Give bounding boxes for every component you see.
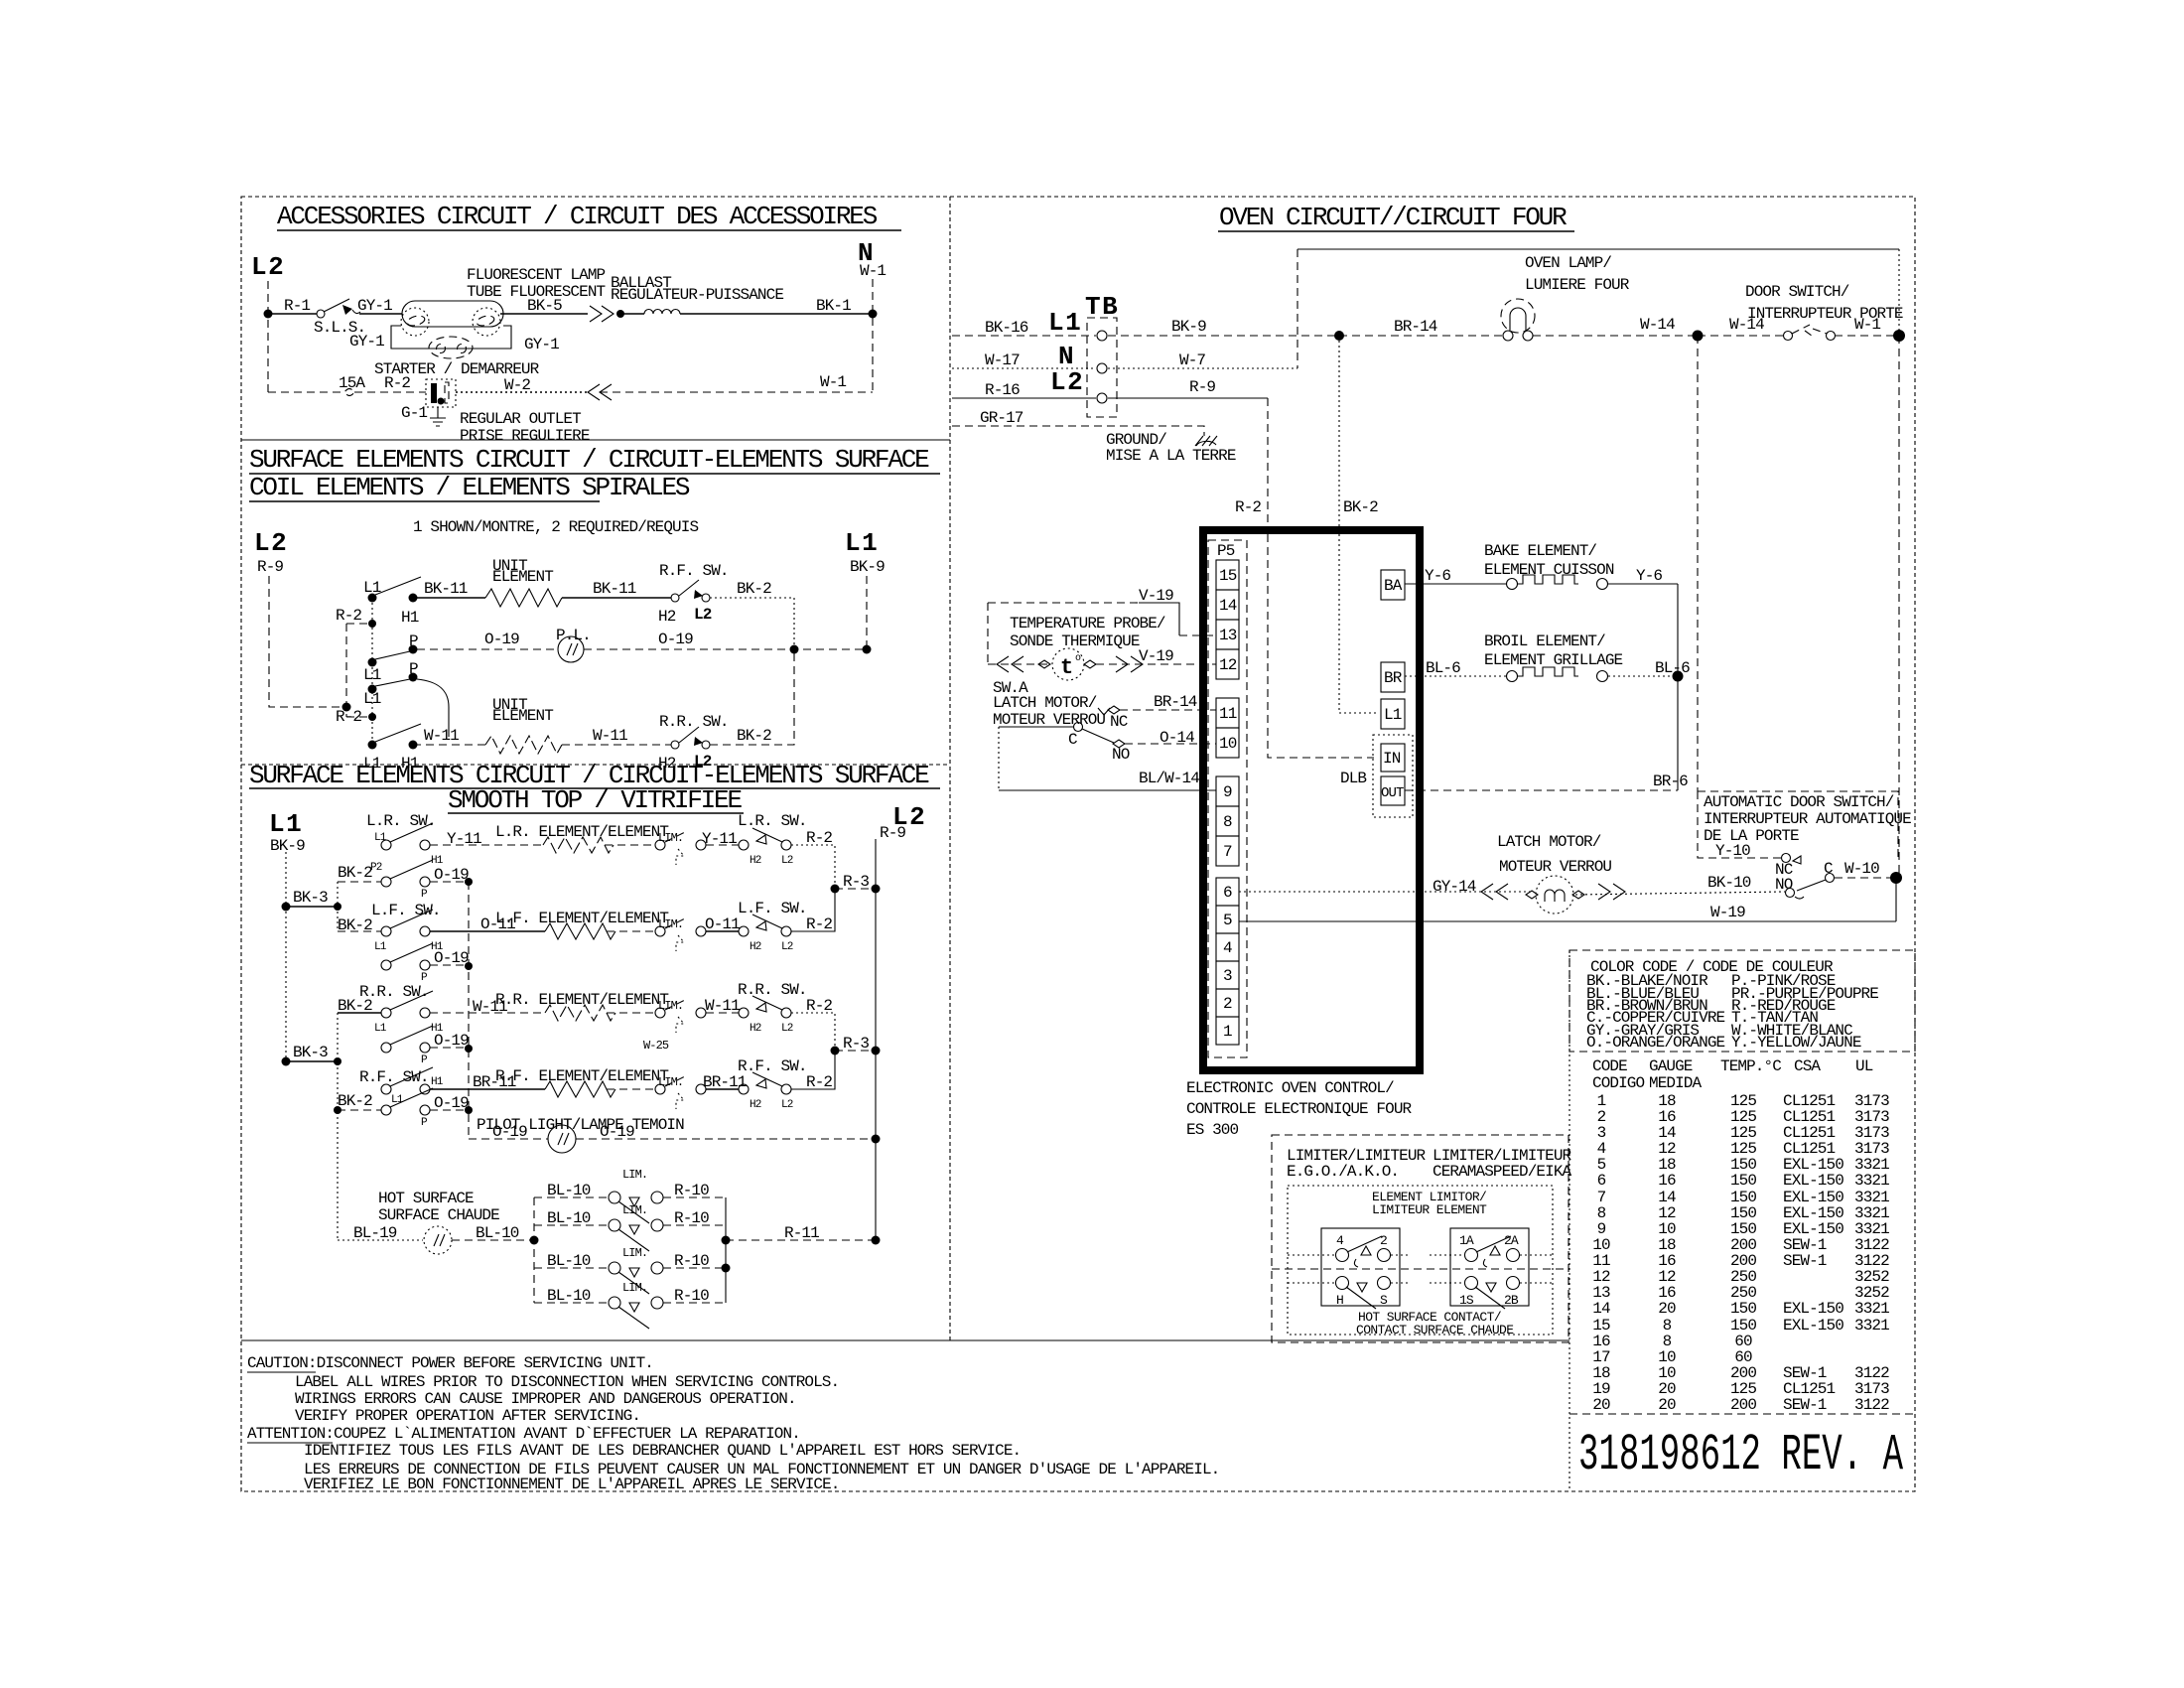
svg-text:R-2: R-2: [336, 607, 361, 625]
svg-text:UL: UL: [1855, 1057, 1873, 1075]
wire BK-3 upper: [286, 906, 338, 908]
svg-text:O-19: O-19: [492, 1123, 527, 1141]
svg-text:O-19: O-19: [434, 866, 469, 884]
svg-text:BK-2: BK-2: [737, 727, 771, 745]
wire O-19 left: [417, 648, 558, 650]
wire BK-9: [1108, 335, 1339, 337]
svg-text:LABEL ALL WIRES PRIOR TO DISCO: LABEL ALL WIRES PRIOR TO DISCONNECTION W…: [295, 1373, 839, 1391]
wire BK-2 top: [710, 598, 794, 649]
svg-text:CSA: CSA: [1794, 1057, 1821, 1075]
svg-text:O.-ORANGE/ORANGE: O.-ORANGE/ORANGE: [1586, 1034, 1725, 1052]
svg-text:BL-6: BL-6: [1426, 659, 1460, 677]
pin 9: [1216, 776, 1239, 806]
element limitor inner box: [1288, 1186, 1553, 1335]
svg-text:ATTENTION:COUPEZ L`ALIMENTATIO: ATTENTION:COUPEZ L`ALIMENTATION AVANT D`…: [247, 1425, 800, 1443]
switch P top: [368, 658, 377, 667]
limiter outer box: [1272, 1135, 1569, 1342]
wire BK-2 bottom: [710, 649, 794, 745]
svg-text:10: 10: [1219, 735, 1237, 753]
svg-text:CERAMASPEED/EIKA: CERAMASPEED/EIKA: [1433, 1163, 1572, 1181]
wire BK-2 bus upper: [337, 882, 339, 931]
svg-text:ELEMENT: ELEMENT: [492, 707, 553, 725]
relay BA: [1381, 570, 1405, 600]
svg-text:4: 4: [1223, 939, 1232, 957]
svg-text:14: 14: [1592, 1300, 1610, 1318]
svg-text:CONTACT SURFACE CHAUDE: CONTACT SURFACE CHAUDE: [1356, 1323, 1514, 1337]
svg-text:PRISE REGULIERE: PRISE REGULIERE: [460, 427, 590, 445]
svg-text:LIM.: LIM.: [622, 1281, 647, 1295]
wire R-2 riser: [1267, 398, 1269, 530]
wire P loop: [417, 679, 449, 737]
switch L1-H1 bottom: [368, 741, 377, 750]
wire O-19 bus: [468, 882, 470, 1139]
gauge table bottom border: [1570, 1413, 1915, 1415]
svg-text:R-3: R-3: [843, 873, 869, 891]
automatic door switch box: [1698, 791, 1898, 858]
contact NC: [1108, 706, 1120, 714]
svg-text:6: 6: [1597, 1172, 1606, 1190]
wire BK-5: [500, 313, 588, 315]
svg-text:R-10: R-10: [674, 1182, 709, 1199]
wire limiter row bottom: [1288, 1282, 1553, 1284]
divider between left column and oven circuit: [949, 197, 951, 1340]
svg-text:BK-2: BK-2: [338, 1092, 372, 1110]
svg-text:4: 4: [1336, 1233, 1344, 1248]
svg-text:1: 1: [1223, 1023, 1232, 1041]
wire BR-11 right: [706, 1088, 739, 1090]
junction BK-2 tap: [1334, 331, 1344, 341]
wire W-7 riser dashed: [1297, 249, 1298, 368]
svg-text:2: 2: [1223, 995, 1232, 1013]
svg-text:W-11: W-11: [705, 997, 740, 1015]
svg-text:BK-2: BK-2: [737, 580, 771, 598]
svg-text:R-2: R-2: [1235, 498, 1261, 516]
junction auto door tap: [1693, 331, 1704, 342]
svg-text:E.G.O./A.K.O.: E.G.O./A.K.O.: [1287, 1163, 1399, 1181]
svg-text:H2: H2: [750, 941, 761, 953]
svg-text:150: 150: [1730, 1172, 1756, 1190]
svg-text:3321: 3321: [1854, 1300, 1889, 1318]
svg-text:L.R. SW.: L.R. SW.: [366, 812, 436, 830]
svg-text:FLUORESCENT LAMP: FLUORESCENT LAMP: [467, 266, 606, 284]
wire O-11 left: [430, 930, 545, 932]
wire W-11 right: [562, 744, 671, 746]
svg-text:ELEMENT GRILLAGE: ELEMENT GRILLAGE: [1484, 651, 1623, 669]
svg-text:GY-14: GY-14: [1433, 878, 1476, 896]
pilot light hot surface: [424, 1226, 452, 1254]
pin 10: [1216, 728, 1239, 758]
svg-text:2A: 2A: [1504, 1233, 1519, 1248]
switch P pair row4: [381, 1105, 391, 1115]
wire BK-16: [952, 335, 1096, 337]
wire W-14 to door switch: [1698, 335, 1784, 337]
svg-text:15A: 15A: [339, 374, 365, 392]
svg-text:R-2: R-2: [806, 915, 832, 933]
svg-text:8: 8: [1223, 813, 1232, 831]
svg-text:5: 5: [1223, 912, 1232, 929]
wire R-2 internal to IN: [1268, 534, 1374, 758]
svg-text:V-19: V-19: [1139, 647, 1173, 665]
svg-text:1A: 1A: [1459, 1233, 1474, 1248]
divider above caution box: [241, 1339, 1570, 1341]
svg-text:W-17: W-17: [985, 352, 1020, 369]
pin 1: [1216, 1017, 1239, 1045]
svg-text:BL/W-14: BL/W-14: [1139, 770, 1199, 787]
wire BR-14: [1339, 335, 1502, 337]
svg-text:ES 300: ES 300: [1186, 1121, 1239, 1139]
svg-text:COIL ELEMENTS / ELEMENTS SPIRA: COIL ELEMENTS / ELEMENTS SPIRALES: [249, 473, 690, 502]
svg-text:BA: BA: [1384, 577, 1403, 595]
svg-text:BK-2: BK-2: [1343, 498, 1378, 516]
limiter row B: [534, 1224, 609, 1226]
svg-text:EXL-150: EXL-150: [1783, 1300, 1843, 1318]
contact NO auto and blade: [1797, 880, 1826, 891]
junction R-9 to R-2 bus: [342, 703, 351, 712]
svg-text:BL-19: BL-19: [353, 1224, 397, 1242]
wire R-2 row2: [791, 889, 835, 931]
svg-text:15: 15: [1219, 567, 1237, 585]
svg-text:R-2: R-2: [806, 1073, 832, 1091]
wire limiter divider: [1272, 1268, 1569, 1270]
svg-text:2: 2: [1380, 1233, 1387, 1248]
svg-text:L1: L1: [1048, 308, 1082, 338]
svg-text:R.R. SW.: R.R. SW.: [659, 713, 729, 731]
svg-text:LATCH MOTOR/: LATCH MOTOR/: [993, 694, 1097, 712]
svg-text:DOOR SWITCH/: DOOR SWITCH/: [1745, 283, 1849, 301]
switch P bottom: [368, 685, 377, 694]
svg-text:Y-11: Y-11: [447, 830, 481, 848]
svg-text:R-9: R-9: [257, 558, 283, 576]
wire R-16: [952, 397, 1096, 399]
svg-text:200: 200: [1730, 1396, 1756, 1414]
svg-text:1S: 1S: [1459, 1293, 1474, 1308]
wire BK-11 left: [413, 597, 485, 599]
svg-text:SURFACE CHAUDE: SURFACE CHAUDE: [378, 1206, 499, 1224]
svg-text:BK-5: BK-5: [527, 297, 562, 315]
svg-text:REGULAR OUTLET: REGULAR OUTLET: [460, 410, 581, 428]
svg-text:BK-11: BK-11: [424, 580, 468, 598]
svg-text:3122: 3122: [1854, 1396, 1889, 1414]
svg-text:W-1: W-1: [860, 262, 886, 280]
svg-text:R.F. SW.: R.F. SW.: [359, 1068, 429, 1086]
svg-text:BK-9: BK-9: [1171, 318, 1206, 336]
limiter switch box left: [1321, 1228, 1400, 1306]
svg-text:ELEMENT CUISSON: ELEMENT CUISSON: [1484, 561, 1614, 579]
wire auto door riser: [1697, 336, 1699, 791]
svg-text:Y-10: Y-10: [1715, 842, 1750, 860]
svg-text:R-10: R-10: [674, 1287, 709, 1305]
svg-text:R-9: R-9: [1189, 378, 1215, 396]
wire BK-2 bus lower: [337, 1013, 339, 1240]
tables left border: [1569, 950, 1570, 1491]
svg-text:W-1: W-1: [1854, 316, 1880, 334]
wire W-1: [1835, 335, 1899, 337]
svg-text:R-2: R-2: [806, 829, 832, 847]
junction P.L. right: [790, 645, 799, 654]
wire W-17: [952, 367, 1096, 369]
svg-text:LIM.: LIM.: [622, 1246, 647, 1260]
svg-text:BROIL ELEMENT/: BROIL ELEMENT/: [1484, 633, 1605, 650]
wire R-2 branch bottom: [346, 716, 372, 718]
svg-text:H1: H1: [401, 609, 419, 627]
svg-text:BK-2: BK-2: [338, 916, 372, 934]
junction R-3 lower: [831, 1047, 840, 1055]
junction on L2 rail: [264, 310, 273, 319]
svg-text:BL-10: BL-10: [547, 1287, 591, 1305]
svg-text:L1: L1: [845, 528, 879, 558]
svg-text:H2: H2: [658, 608, 676, 626]
svg-text:P: P: [409, 633, 418, 650]
svg-text:Y.-YELLOW/JAUNE: Y.-YELLOW/JAUNE: [1731, 1034, 1861, 1052]
svg-text:L2: L2: [254, 528, 288, 558]
electronic oven control box: [1203, 530, 1420, 1070]
svg-text:R-10: R-10: [674, 1209, 709, 1227]
svg-text:O-19: O-19: [658, 631, 693, 648]
svg-text:P: P: [409, 660, 418, 678]
svg-text:R-10: R-10: [674, 1252, 709, 1270]
svg-text:L1: L1: [374, 1023, 387, 1035]
wire lower return W-1: [600, 391, 873, 393]
svg-text:V-19: V-19: [1139, 587, 1173, 605]
svg-text:LIM.: LIM.: [622, 1168, 647, 1182]
svg-text:LIMITEUR ELEMENT: LIMITEUR ELEMENT: [1372, 1202, 1487, 1217]
svg-text:R.F. SW.: R.F. SW.: [659, 562, 729, 580]
svg-text:14: 14: [1219, 597, 1237, 615]
switch P pair row2: [381, 960, 391, 970]
svg-text:MISE A LA TERRE: MISE A LA TERRE: [1106, 447, 1236, 465]
svg-text:BK-2: BK-2: [338, 864, 372, 882]
svg-text:o: o: [1075, 653, 1081, 664]
svg-text:R-2: R-2: [384, 374, 410, 392]
svg-text:W-14: W-14: [1640, 316, 1675, 334]
svg-text:L1: L1: [363, 666, 381, 684]
svg-text:R-3: R-3: [843, 1035, 869, 1053]
connector chevrons lower: [588, 384, 612, 400]
svg-text:L2: L2: [251, 252, 285, 282]
svg-text:R-11: R-11: [784, 1224, 819, 1242]
svg-text:O-19: O-19: [434, 1032, 469, 1050]
wire door switch riser: [1898, 336, 1900, 878]
pin 4: [1216, 933, 1239, 961]
svg-text:BR-11: BR-11: [703, 1073, 747, 1091]
svg-text:BK-9: BK-9: [270, 837, 305, 855]
svg-text:L.R. SW.: L.R. SW.: [738, 812, 807, 830]
contact NC auto: [1782, 854, 1791, 863]
svg-text:H1: H1: [431, 1076, 444, 1088]
svg-text:20: 20: [1658, 1300, 1676, 1318]
svg-text:H: H: [1336, 1293, 1343, 1308]
svg-text:ELECTRONIC OVEN CONTROL/: ELECTRONIC OVEN CONTROL/: [1186, 1079, 1394, 1097]
svg-text:L.F. SW.: L.F. SW.: [738, 900, 807, 917]
svg-text:L2: L2: [694, 606, 712, 624]
svg-text:16: 16: [1658, 1172, 1676, 1190]
svg-text:EXL-150: EXL-150: [1783, 1317, 1843, 1335]
wire W-2: [456, 391, 588, 393]
wire limiter row top: [1288, 1254, 1553, 1256]
svg-text:3321: 3321: [1854, 1317, 1889, 1335]
svg-text:EXL-150: EXL-150: [1783, 1172, 1843, 1190]
limiter row D: [534, 1302, 609, 1304]
svg-text:OVEN CIRCUIT//CIRCUIT FOUR: OVEN CIRCUIT//CIRCUIT FOUR: [1219, 203, 1567, 232]
svg-text:IN: IN: [1383, 750, 1401, 768]
pin 3: [1216, 961, 1239, 989]
svg-text:BK-11: BK-11: [593, 580, 636, 598]
pin 15: [1216, 560, 1239, 590]
svg-text:318198612 REV. A: 318198612 REV. A: [1578, 1426, 1904, 1484]
wire R-2 row1: [791, 845, 835, 889]
svg-text:WIRINGS ERRORS CAN CAUSE IMPRO: WIRINGS ERRORS CAN CAUSE IMPROPER AND DA…: [295, 1390, 796, 1408]
svg-text:L1: L1: [374, 941, 387, 953]
svg-text:L2: L2: [781, 1023, 793, 1035]
wire ladder right rail: [725, 1197, 727, 1303]
svg-text:W-7: W-7: [1179, 352, 1205, 369]
junction R-3 upper: [831, 885, 840, 894]
wire BK-2 riser: [1338, 336, 1340, 530]
junction W-10: [1890, 872, 1902, 884]
svg-text:GAUGE: GAUGE: [1649, 1057, 1693, 1075]
svg-text:LIM.: LIM.: [622, 1203, 647, 1217]
svg-text:1 SHOWN/MONTRE, 2 REQUIRED/REQ: 1 SHOWN/MONTRE, 2 REQUIRED/REQUIS: [413, 518, 698, 536]
switch P2 pair row1: [381, 877, 391, 887]
svg-text:BR: BR: [1384, 669, 1403, 687]
svg-text:t: t: [1060, 655, 1073, 680]
svg-text:W-11: W-11: [424, 727, 459, 745]
svg-text:12: 12: [1219, 656, 1237, 674]
svg-text:MOTEUR VERROU: MOTEUR VERROU: [993, 711, 1105, 729]
svg-text:LIM.: LIM.: [658, 999, 683, 1013]
wire BK-3 lower: [286, 1060, 338, 1062]
ground symbol: [1195, 436, 1217, 446]
svg-text:O-19: O-19: [484, 631, 519, 648]
wire R-9: [1108, 397, 1268, 399]
svg-text:OUT: OUT: [1381, 785, 1404, 801]
fluorescent lamp tube: [402, 301, 503, 327]
svg-text:Y-6: Y-6: [1425, 567, 1450, 585]
svg-text:H2: H2: [750, 855, 761, 867]
svg-text:BK-3: BK-3: [293, 1044, 328, 1061]
wire R-9 rail: [269, 576, 346, 707]
svg-text:3321: 3321: [1854, 1172, 1889, 1190]
svg-text:W-19: W-19: [1710, 904, 1745, 921]
svg-text:C: C: [1068, 731, 1077, 749]
svg-text:Y-11: Y-11: [702, 830, 737, 848]
svg-text:7: 7: [1223, 843, 1232, 861]
svg-text:L1: L1: [363, 579, 381, 597]
wire BL-19: [338, 1239, 423, 1241]
wire W-19 riser: [1895, 878, 1897, 921]
wire R-2 row4: [791, 1051, 835, 1089]
svg-text:3: 3: [1223, 967, 1232, 985]
wire ladder left rail: [533, 1197, 535, 1303]
svg-text:R-1: R-1: [284, 297, 310, 315]
svg-text:W-1: W-1: [820, 373, 846, 391]
wire W-11 left row3: [430, 1012, 545, 1014]
wire latch common: [999, 726, 1073, 728]
junction ladder left: [530, 1236, 539, 1245]
wire element return riser: [1677, 584, 1679, 790]
pin 11: [1216, 698, 1239, 728]
svg-text:SEW-1: SEW-1: [1783, 1396, 1827, 1414]
svg-text:BL-10: BL-10: [547, 1209, 591, 1227]
svg-text:L1: L1: [269, 809, 303, 839]
svg-text:L1: L1: [1384, 706, 1402, 724]
wire N rail W-1: [872, 279, 874, 392]
wire O-11 right: [706, 930, 739, 932]
relay BR: [1381, 662, 1405, 692]
wire R-2 branch top: [346, 623, 372, 625]
svg-text:L1: L1: [363, 690, 381, 708]
divider under coil elements box: [241, 764, 950, 766]
connector P5: [1208, 540, 1247, 1057]
wire R-2 row3: [791, 1013, 835, 1051]
svg-text:AUTOMATIC DOOR SWITCH/: AUTOMATIC DOOR SWITCH/: [1704, 793, 1894, 811]
svg-text:O-19: O-19: [600, 1123, 634, 1141]
wire W-14: [1533, 335, 1698, 337]
contact C auto: [1826, 874, 1835, 883]
svg-text:BR-6: BR-6: [1653, 773, 1688, 790]
svg-text:R.F. ELEMENT/ELEMENT: R.F. ELEMENT/ELEMENT: [495, 1067, 668, 1085]
wire Y-11 left: [430, 844, 543, 846]
connector chevrons to ballast: [590, 306, 614, 322]
svg-text:O-19: O-19: [434, 1094, 469, 1112]
junction L1 rail: [863, 645, 872, 654]
svg-text:G-1: G-1: [401, 404, 427, 422]
wire BL/W-14: [999, 789, 1216, 791]
svg-text:LIM.: LIM.: [658, 917, 683, 931]
pin 7: [1216, 836, 1239, 866]
svg-text:P.L.: P.L.: [556, 627, 591, 644]
svg-text:C: C: [1824, 860, 1833, 878]
svg-text:L1: L1: [374, 832, 387, 844]
wire Y-11 mid: [706, 844, 739, 846]
contact NO: [1113, 740, 1125, 748]
svg-text:20: 20: [1658, 1396, 1676, 1414]
wire pin5 internal: [1239, 920, 1420, 922]
svg-text:H2: H2: [750, 1099, 761, 1111]
switch L1-H1 top: [368, 594, 377, 603]
wire GR-17: [952, 426, 1204, 436]
svg-text:VERIFY PROPER OPERATION AFTER: VERIFY PROPER OPERATION AFTER SERVICING.: [295, 1407, 640, 1425]
svg-text:BK-10: BK-10: [1707, 874, 1751, 892]
svg-text:R.R. SW.: R.R. SW.: [738, 981, 807, 999]
svg-text:NC: NC: [1110, 713, 1128, 731]
limiter row A: [534, 1196, 609, 1198]
wire W-19 / pin5: [1420, 920, 1896, 922]
junction at N rail: [869, 310, 878, 319]
svg-text:L2: L2: [1050, 367, 1084, 397]
svg-text:L2: L2: [781, 941, 793, 953]
limiter row C: [534, 1267, 609, 1269]
svg-text:L2: L2: [781, 855, 793, 867]
svg-text:O-19: O-19: [434, 949, 469, 967]
svg-text:BK-2: BK-2: [338, 997, 372, 1015]
svg-text:NO: NO: [1775, 876, 1793, 894]
svg-text:IDENTIFIEZ TOUS LES FILS AVANT: IDENTIFIEZ TOUS LES FILS AVANT DE LES DE…: [304, 1442, 1021, 1460]
wire BL-10 feed: [452, 1239, 534, 1241]
wire BK-11 right: [562, 597, 671, 599]
wire switch rail: [371, 598, 373, 745]
pin 8: [1216, 806, 1239, 836]
color code box: [1570, 950, 1915, 1052]
svg-text:CODE: CODE: [1592, 1057, 1627, 1075]
wire BR-6: [1405, 789, 1678, 791]
wire W-7: [1108, 367, 1297, 369]
pin 2: [1216, 989, 1239, 1017]
svg-text:R-2: R-2: [806, 997, 832, 1015]
svg-text:GY-1: GY-1: [524, 336, 559, 353]
wire W-11 left: [413, 744, 485, 746]
svg-text:BR-14: BR-14: [1394, 318, 1437, 336]
